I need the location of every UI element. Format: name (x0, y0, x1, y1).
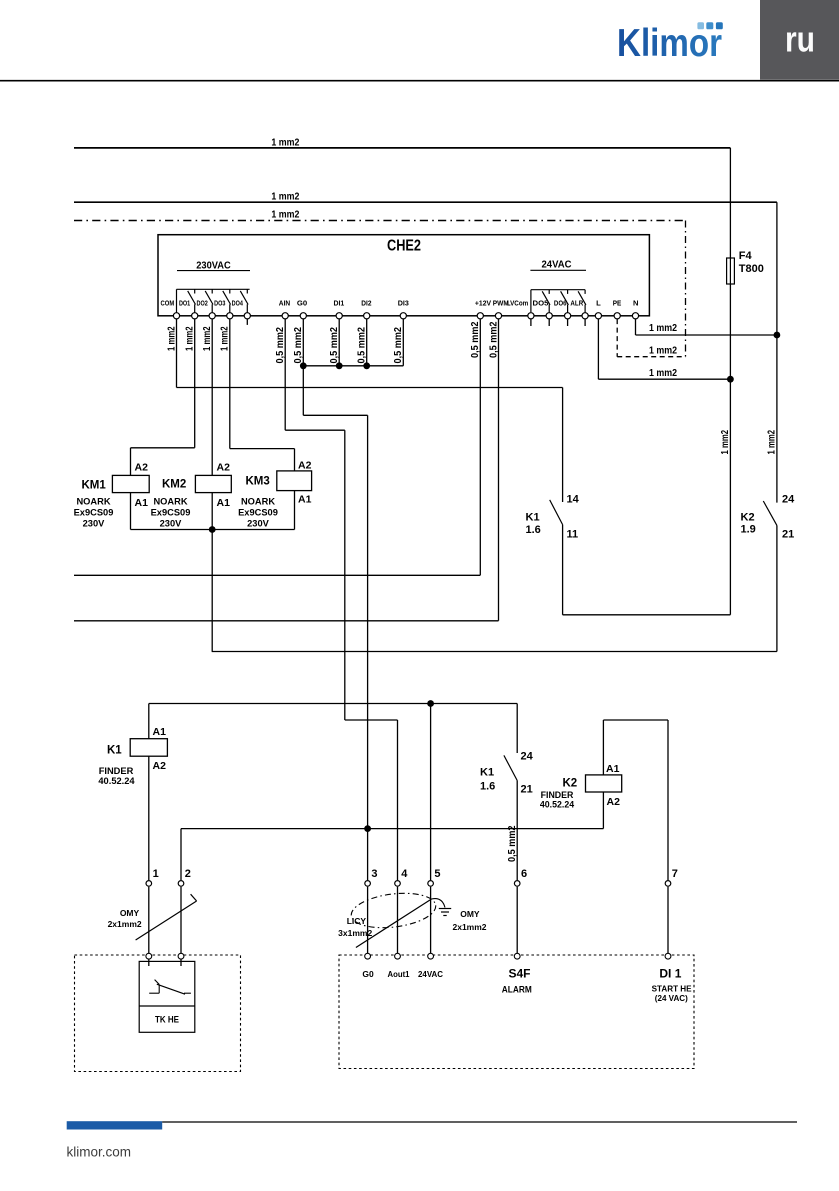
svg-text:Ex9CS09: Ex9CS09 (238, 508, 278, 518)
junction dot G0 (300, 362, 307, 369)
label 230VAC (177, 259, 250, 271)
contact DO4 (240, 289, 248, 312)
svg-text:ALARM: ALARM (502, 985, 532, 995)
contact DO1 (188, 289, 196, 312)
label K1 coil (107, 745, 122, 757)
wire K2 coil A1 lead (602, 720, 604, 775)
label LICY (338, 916, 372, 938)
label rail L2 (271, 191, 299, 203)
device TK HE box (139, 961, 195, 1032)
svg-text:A2: A2 (607, 796, 621, 808)
label 1mm2 DO1 (185, 326, 196, 351)
label KM1 A1 (135, 497, 149, 509)
svg-text:1 mm2: 1 mm2 (649, 344, 677, 356)
TK HE lead stubs (149, 959, 181, 966)
relay coil K2 (586, 775, 622, 792)
wire L terminal (598, 319, 730, 379)
wire G0 jog (303, 415, 367, 880)
label K2 type (540, 790, 574, 810)
svg-text:DO6: DO6 (554, 299, 567, 308)
wire G0 return bus (181, 828, 603, 830)
svg-text:K2: K2 (741, 512, 755, 524)
svg-text:Ex9CS09: Ex9CS09 (74, 508, 114, 518)
label 24VAC field (418, 969, 443, 979)
footer rule (162, 1121, 797, 1123)
label 0.5mm2 DI2 (357, 327, 368, 364)
svg-text:FINDER: FINDER (99, 766, 134, 776)
box edge circles (146, 953, 671, 959)
label rail PE (271, 208, 299, 220)
shield earth lead (432, 899, 446, 908)
label T800 (739, 263, 764, 275)
wire DO3 to KM3 (230, 449, 295, 471)
svg-text:A2: A2 (135, 462, 149, 474)
label KM1 (82, 480, 107, 492)
contact K2 1.9 blade (763, 501, 777, 525)
stub LVCom (530, 319, 532, 326)
svg-text:1 mm2: 1 mm2 (767, 430, 778, 455)
svg-text:klimor.com: klimor.com (67, 1145, 132, 1160)
wire 24VAC to terminal 5 (430, 704, 432, 881)
svg-text:11: 11 (567, 529, 579, 541)
label KM3 A1 (298, 493, 312, 505)
svg-text:OMY: OMY (120, 908, 140, 918)
svg-text:1.9: 1.9 (741, 524, 756, 536)
label 1 mm2 vertical F4 line (720, 430, 731, 455)
svg-text:14: 14 (567, 494, 580, 506)
label K1 A2 (153, 760, 167, 772)
label K1 pin 14 (567, 494, 580, 506)
svg-text:0,5 mm2: 0,5 mm2 (488, 321, 499, 358)
wire KM3 A1 down (294, 491, 296, 530)
label KM3 (246, 476, 270, 488)
svg-text:S4F: S4F (508, 967, 530, 981)
label K1 1.6 upper (526, 512, 541, 537)
terminal name labels (161, 299, 639, 308)
label G0 field (362, 969, 374, 979)
label 0.5mm2 DI1 (329, 327, 340, 364)
svg-text:K2: K2 (563, 778, 578, 790)
footer klimor.com (67, 1145, 132, 1160)
cable LICY wires 3-5 (356, 899, 432, 948)
svg-text:0,5 mm2: 0,5 mm2 (393, 327, 404, 364)
svg-text:KM2: KM2 (162, 479, 186, 491)
label KM2 (162, 479, 186, 491)
label 0.5mm2 wire6 (507, 825, 518, 862)
wire DO1 down (194, 319, 196, 448)
wire K2 coil A2 down (602, 792, 604, 829)
label KM2 type (151, 497, 191, 529)
svg-text:L: L (596, 299, 601, 308)
svg-text:24: 24 (782, 494, 795, 506)
wire DI3 down (402, 319, 404, 366)
cable LICY shield ellipse (349, 889, 437, 932)
stub DO6 (567, 319, 569, 326)
label TK HE (155, 1014, 179, 1024)
wire DO3 down (229, 319, 231, 449)
label 0.5mm2 G0 (293, 327, 304, 364)
wire L1 down to fuse (729, 148, 731, 258)
label K2 1.9 (741, 512, 756, 536)
svg-text:N: N (633, 299, 638, 308)
svg-text:KM1: KM1 (82, 480, 107, 492)
svg-text:DO5: DO5 (533, 299, 550, 308)
svg-text:G0: G0 (362, 969, 374, 979)
label K1 A1 (153, 726, 167, 738)
wire KM A1 bus down (211, 530, 213, 652)
svg-text:24VAC: 24VAC (418, 969, 443, 979)
svg-text:A1: A1 (606, 763, 620, 775)
contact DO2 (205, 289, 213, 312)
svg-text:DI1: DI1 (334, 299, 345, 308)
wire AIN down (284, 319, 286, 430)
label KM1 type (74, 497, 114, 529)
label ALARM (502, 985, 532, 995)
label 1 mm2 vertical N line (767, 430, 778, 455)
thermostat contact symbol (149, 980, 191, 995)
label K1 type (98, 766, 135, 786)
wire G0 down (302, 319, 304, 415)
svg-text:0,5 mm2: 0,5 mm2 (275, 327, 286, 364)
contactor coil KM2 (195, 475, 231, 492)
svg-text:DI2: DI2 (361, 299, 371, 308)
label 1mm2 COM (166, 326, 177, 351)
svg-text:230V: 230V (247, 519, 270, 529)
svg-text:1 mm2: 1 mm2 (649, 367, 677, 379)
wire DI1 down (338, 319, 340, 366)
svg-text:0,5 mm2: 0,5 mm2 (293, 327, 304, 364)
wire KM A1 bus (131, 529, 295, 531)
svg-text:CHE2: CHE2 (387, 238, 421, 255)
device S4F label (508, 967, 530, 981)
contact K1 1.6 lower blade (504, 755, 517, 780)
svg-text:0,5 mm2: 0,5 mm2 (470, 321, 481, 358)
svg-text:DI3: DI3 (398, 299, 409, 308)
svg-text:Ex9CS09: Ex9CS09 (151, 508, 191, 518)
stub DO4 (246, 319, 248, 325)
contactor coil KM1 (112, 475, 149, 492)
wire DO2 down to KM2 (211, 319, 213, 475)
label KM2 A1 (217, 497, 231, 509)
junction dot L/F4 (727, 376, 734, 383)
svg-text:3x1mm2: 3x1mm2 (338, 928, 372, 938)
wire terminal7 riser (603, 720, 668, 880)
svg-text:1 mm2: 1 mm2 (720, 430, 731, 455)
label K1 lower pin 21 (521, 784, 533, 796)
svg-text:(24 VAC): (24 VAC) (655, 993, 688, 1003)
wire AIN jog (285, 430, 345, 720)
wire PE terminal dashed (617, 319, 685, 357)
wire N terminal (636, 319, 777, 335)
wire K1 coil A1 lead (148, 704, 150, 739)
svg-text:PE: PE (613, 299, 622, 308)
svg-text:21: 21 (521, 784, 533, 796)
svg-text:24VAC: 24VAC (542, 259, 572, 271)
wire terminal 2 riser (180, 829, 182, 881)
svg-text:1 mm2: 1 mm2 (166, 326, 177, 351)
svg-text:OMY: OMY (460, 909, 480, 919)
svg-text:Aout1: Aout1 (388, 969, 410, 979)
svg-text:DO1: DO1 (179, 299, 191, 308)
footer blue bar (67, 1121, 163, 1129)
wire K1 loop horizontal (563, 614, 731, 616)
wire L2 down (N net) (776, 202, 778, 502)
wire PE riser dash-dot (685, 221, 687, 357)
svg-text:230V: 230V (160, 519, 183, 529)
label 1mm2 DO3 (220, 326, 231, 351)
svg-text:A2: A2 (153, 760, 167, 772)
wire +12V down (479, 319, 481, 575)
earth symbol (439, 909, 451, 916)
label 0.5mm2 PWM (488, 321, 499, 358)
wire rail PE (dash-dot) (74, 220, 686, 222)
wire PWM down (498, 319, 500, 621)
svg-text:DO4: DO4 (232, 299, 244, 308)
svg-text:1 mm2: 1 mm2 (649, 322, 677, 334)
wire KM1 A1 down (130, 493, 132, 530)
header rule (0, 80, 839, 82)
svg-text:COM: COM (161, 299, 175, 308)
label Aout1 field (388, 969, 410, 979)
logo squares (697, 22, 722, 29)
label 1mm2 L (649, 367, 677, 379)
contact K1 1.6 blade (550, 500, 563, 525)
wire DI2 down (366, 319, 368, 366)
svg-text:24: 24 (521, 751, 534, 763)
svg-text:1 mm2: 1 mm2 (185, 326, 196, 351)
svg-text:TK HE: TK HE (155, 1014, 179, 1024)
svg-text:LICY: LICY (347, 916, 367, 926)
svg-text:ru: ru (785, 19, 815, 60)
contact rail 24VAC (531, 290, 585, 313)
wire K1 contact to terminal 6 (516, 781, 518, 881)
terminal circles CHE2 (173, 313, 638, 319)
wire K2 contact to coil-return bus (776, 525, 778, 651)
label CHE2 (387, 238, 421, 255)
svg-text:A2: A2 (298, 459, 312, 471)
svg-text:DI 1: DI 1 (659, 967, 681, 981)
svg-text:2x1mm2: 2x1mm2 (452, 922, 486, 932)
fuse F4 (727, 258, 735, 284)
svg-text:+12V: +12V (475, 299, 492, 308)
svg-text:5: 5 (434, 868, 440, 880)
contact rail 230VAC (177, 289, 250, 312)
wire PWM bus (74, 620, 499, 622)
contact ALR (578, 290, 586, 313)
wire rail L2 (N supply) (74, 201, 777, 203)
svg-text:1: 1 (153, 868, 159, 880)
wire AIN jog2 (345, 720, 398, 880)
svg-text:K1: K1 (526, 512, 540, 524)
wire DO1 to KM1 (131, 448, 195, 476)
svg-text:DO2: DO2 (197, 299, 208, 308)
svg-text:40.52.24: 40.52.24 (98, 776, 135, 786)
label K1 lower pin 24 (521, 751, 534, 763)
svg-text:3: 3 (371, 868, 377, 880)
ru language box (760, 0, 839, 80)
svg-text:G0: G0 (297, 299, 307, 308)
field wires to boxes (149, 887, 668, 954)
svg-text:A2: A2 (217, 462, 231, 474)
svg-text:NOARK: NOARK (76, 497, 110, 507)
field terminal circles (146, 881, 671, 887)
label K2 pin 24 (782, 494, 795, 506)
svg-text:0,5 mm2: 0,5 mm2 (329, 327, 340, 364)
svg-text:A1: A1 (135, 497, 149, 509)
svg-text:6: 6 (521, 868, 527, 880)
wire K1 contact lower lead (562, 525, 564, 615)
junction dot KM A1 (209, 526, 216, 533)
svg-text:FINDER: FINDER (541, 790, 574, 800)
label 1mm2 DO2 (202, 326, 213, 351)
svg-text:AIN: AIN (279, 299, 290, 308)
svg-text:1.6: 1.6 (480, 781, 495, 793)
wire COM down (176, 319, 178, 387)
label 24VAC (530, 259, 586, 271)
label KM3 A2 (298, 459, 312, 471)
label OMY left (108, 908, 142, 929)
wire down to K1 loop (729, 379, 731, 615)
svg-text:KM3: KM3 (246, 476, 270, 488)
svg-text:LVCom: LVCom (507, 299, 529, 308)
svg-text:NOARK: NOARK (153, 497, 187, 507)
svg-text:1 mm2: 1 mm2 (271, 136, 299, 148)
wire COM bus drop to K1 (562, 388, 564, 503)
wire KM2 A1 down (211, 493, 213, 530)
wire fuse to L junction (729, 284, 731, 379)
svg-text:7: 7 (672, 868, 678, 880)
svg-text:4: 4 (401, 868, 408, 880)
svg-text:1.6: 1.6 (526, 524, 541, 536)
label 1mm2 PE (649, 344, 677, 356)
svg-text:1 mm2: 1 mm2 (202, 326, 213, 351)
label K2 pin 21 (782, 529, 794, 541)
junction dot DI1 (336, 362, 343, 369)
junction dot G0 bus (364, 825, 371, 832)
svg-text:0,5 mm2: 0,5 mm2 (507, 825, 518, 862)
controller CHE2 box (158, 235, 649, 316)
svg-text:T800: T800 (739, 263, 764, 275)
svg-text:1 mm2: 1 mm2 (220, 326, 231, 351)
svg-text:A1: A1 (298, 493, 312, 505)
label KM2 A2 (217, 462, 231, 474)
label 0.5mm2 +12V (470, 321, 481, 358)
svg-text:2x1mm2: 2x1mm2 (108, 919, 142, 929)
svg-text:A1: A1 (153, 726, 167, 738)
stub ALR (584, 319, 586, 326)
label START HE (652, 984, 692, 1003)
logo Klimor (617, 22, 722, 65)
wire COM bus (177, 387, 563, 389)
junction dot DI2 (363, 362, 370, 369)
contact DO5 (542, 290, 550, 313)
svg-text:0,5 mm2: 0,5 mm2 (357, 327, 368, 364)
junction dot 24VAC (427, 700, 434, 707)
wire 24VAC supply line (149, 703, 517, 705)
svg-text:2: 2 (185, 868, 191, 880)
relay coil K1 (130, 739, 167, 757)
label 1mm2 N (649, 322, 677, 334)
contactor coil KM3 (277, 471, 312, 491)
wire +12V bus (74, 574, 480, 576)
svg-text:K1: K1 (480, 767, 494, 779)
label KM3 type (238, 497, 278, 529)
svg-text:NOARK: NOARK (241, 497, 275, 507)
label K2 coil (563, 778, 578, 790)
svg-text:230VAC: 230VAC (196, 259, 231, 271)
cable OMY wires 1-2 (136, 894, 197, 940)
junction dot N (774, 332, 781, 339)
stub DO5 (548, 319, 550, 326)
label K2 A2 (607, 796, 621, 808)
wire K1 coil A2 down (148, 756, 150, 880)
contact DO3 (223, 289, 231, 312)
label KM1 A2 (135, 462, 149, 474)
svg-text:40.52.24: 40.52.24 (540, 800, 574, 810)
wire DI bus (303, 365, 403, 367)
svg-text:ALR: ALR (570, 299, 583, 308)
label OMY right (452, 909, 486, 932)
label K2 A1 (606, 763, 620, 775)
enclosure field dashed box (339, 955, 694, 1069)
svg-text:1 mm2: 1 mm2 (271, 208, 299, 220)
svg-text:21: 21 (782, 529, 794, 541)
device DI1 label (659, 967, 681, 981)
svg-text:DO3: DO3 (214, 299, 225, 308)
label K1 1.6 lower (480, 767, 495, 793)
label 0.5mm2 AIN (275, 327, 286, 364)
svg-text:Klimor: Klimor (617, 22, 722, 65)
label 0.5mm2 DI3 (393, 327, 404, 364)
wire coil return bus (212, 651, 777, 653)
svg-text:1 mm2: 1 mm2 (271, 191, 299, 203)
label K1 pin 11 (567, 529, 579, 541)
label F4 (739, 250, 753, 262)
wire rail L1 (L supply) (74, 147, 730, 149)
label rail L1 (271, 136, 299, 148)
svg-text:F4: F4 (739, 250, 753, 262)
field terminal numbers (153, 868, 678, 880)
svg-text:A1: A1 (217, 497, 231, 509)
wire to K1 contact pin24 (516, 704, 518, 754)
svg-text:230V: 230V (83, 519, 106, 529)
contact DO6 (561, 290, 569, 313)
svg-text:K1: K1 (107, 745, 122, 757)
enclosure TK HE dashed box (75, 955, 241, 1072)
